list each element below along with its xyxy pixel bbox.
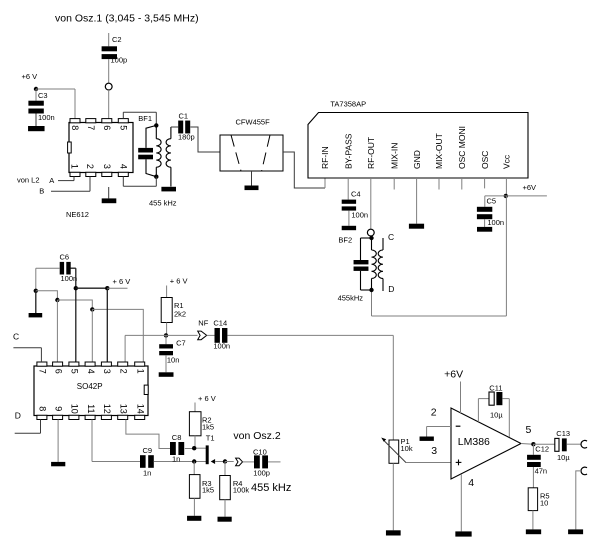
svg-text:7: 7 <box>86 125 96 130</box>
svg-text:C12: C12 <box>535 444 549 453</box>
svg-text:OSC: OSC <box>480 151 490 169</box>
svg-text:4: 4 <box>468 477 474 489</box>
svg-text:C10: C10 <box>253 448 267 457</box>
svg-text:+ 6 V: + 6 V <box>113 277 131 286</box>
svg-text:C1: C1 <box>179 111 189 120</box>
svg-text:RF-IN: RF-IN <box>320 146 330 169</box>
svg-text:10k: 10k <box>401 444 413 453</box>
svg-text:1n: 1n <box>143 469 151 478</box>
svg-text:OSC MONI: OSC MONI <box>457 126 467 169</box>
svg-text:2: 2 <box>119 369 129 374</box>
svg-text:47n: 47n <box>535 467 548 476</box>
svg-text:B: B <box>39 187 44 196</box>
svg-text:8: 8 <box>38 406 48 411</box>
svg-text:+6 V: +6 V <box>22 72 38 81</box>
svg-text:BY-PASS: BY-PASS <box>343 133 353 169</box>
svg-text:D: D <box>388 284 394 294</box>
svg-text:C: C <box>388 232 394 242</box>
svg-text:von Osz.2: von Osz.2 <box>233 430 280 442</box>
svg-text:C7: C7 <box>176 338 186 347</box>
svg-text:10: 10 <box>540 498 548 507</box>
svg-text:C: C <box>13 331 19 341</box>
svg-text:C6: C6 <box>60 253 70 262</box>
svg-text:C4: C4 <box>351 190 361 199</box>
svg-text:C2: C2 <box>112 35 122 44</box>
svg-text:+6V: +6V <box>523 183 537 192</box>
svg-text:CFW455F: CFW455F <box>236 118 271 127</box>
svg-text:7: 7 <box>38 369 48 374</box>
svg-text:10µ: 10µ <box>557 453 570 462</box>
svg-text:C3: C3 <box>38 91 48 100</box>
svg-text:T1: T1 <box>206 433 215 442</box>
svg-text:455 kHz: 455 kHz <box>149 199 177 208</box>
svg-text:C8: C8 <box>172 433 182 442</box>
svg-text:1k5: 1k5 <box>202 486 214 495</box>
svg-text:8: 8 <box>70 125 80 130</box>
svg-text:3: 3 <box>102 164 112 169</box>
svg-text:455 kHz: 455 kHz <box>251 482 291 494</box>
svg-text:LM386: LM386 <box>458 436 490 448</box>
svg-text:2: 2 <box>431 407 437 419</box>
svg-text:C9: C9 <box>143 446 153 455</box>
svg-text:1n: 1n <box>172 455 180 464</box>
svg-text:BF1: BF1 <box>138 114 152 123</box>
svg-text:NF: NF <box>198 319 208 328</box>
svg-text:10µ: 10µ <box>490 411 503 420</box>
svg-text:11: 11 <box>86 404 96 413</box>
svg-text:D: D <box>15 411 21 421</box>
svg-text:100n: 100n <box>38 113 55 122</box>
svg-text:RF-OUT: RF-OUT <box>366 137 376 169</box>
svg-text:455kHz: 455kHz <box>338 293 364 302</box>
svg-text:C5: C5 <box>487 197 497 206</box>
svg-text:100k: 100k <box>233 486 250 495</box>
svg-text:180p: 180p <box>178 133 195 142</box>
svg-text:100n: 100n <box>487 218 504 227</box>
svg-text:4: 4 <box>118 164 128 169</box>
svg-text:MIX-IN: MIX-IN <box>389 143 399 169</box>
svg-text:C14: C14 <box>213 319 227 328</box>
svg-text:3: 3 <box>102 369 112 374</box>
svg-text:6: 6 <box>102 125 112 130</box>
svg-text:6: 6 <box>53 369 63 374</box>
svg-text:SO42P: SO42P <box>77 382 103 391</box>
svg-text:C11: C11 <box>489 383 502 392</box>
svg-text:10n: 10n <box>167 355 180 364</box>
svg-text:10: 10 <box>70 404 80 414</box>
svg-text:TA7358AP: TA7358AP <box>330 100 366 109</box>
svg-text:100p: 100p <box>111 56 128 65</box>
svg-text:A: A <box>49 176 54 185</box>
svg-text:100p: 100p <box>253 469 270 478</box>
svg-text:12: 12 <box>102 404 112 414</box>
svg-text:+ 6 V: + 6 V <box>170 277 188 286</box>
svg-text:13: 13 <box>119 404 129 414</box>
svg-text:100n: 100n <box>61 274 78 283</box>
svg-text:+ 6 V: + 6 V <box>198 394 216 403</box>
svg-text:1: 1 <box>69 164 79 169</box>
svg-text:C13: C13 <box>556 429 570 438</box>
svg-text:5: 5 <box>118 125 128 130</box>
svg-text:2k2: 2k2 <box>174 310 186 319</box>
svg-text:von Osz.1 (3,045 - 3,545 MHz): von Osz.1 (3,045 - 3,545 MHz) <box>55 13 199 25</box>
svg-text:100n: 100n <box>213 342 230 351</box>
svg-text:1k5: 1k5 <box>202 422 214 431</box>
svg-text:14: 14 <box>136 404 146 414</box>
svg-text:+6V: +6V <box>444 369 463 381</box>
svg-text:4: 4 <box>86 369 96 374</box>
svg-text:Vcc: Vcc <box>502 154 512 169</box>
svg-text:von L2: von L2 <box>17 175 40 184</box>
svg-text:BF2: BF2 <box>338 236 352 245</box>
svg-text:GND: GND <box>412 150 422 169</box>
svg-text:100n: 100n <box>351 211 368 220</box>
svg-text:NE612: NE612 <box>66 210 89 219</box>
svg-text:3: 3 <box>431 445 437 457</box>
svg-text:1: 1 <box>136 369 146 374</box>
svg-text:9: 9 <box>53 406 63 411</box>
svg-text:2: 2 <box>85 164 95 169</box>
svg-text:MIX-OUT: MIX-OUT <box>434 133 444 169</box>
svg-text:5: 5 <box>526 424 532 436</box>
svg-text:5: 5 <box>70 369 80 374</box>
